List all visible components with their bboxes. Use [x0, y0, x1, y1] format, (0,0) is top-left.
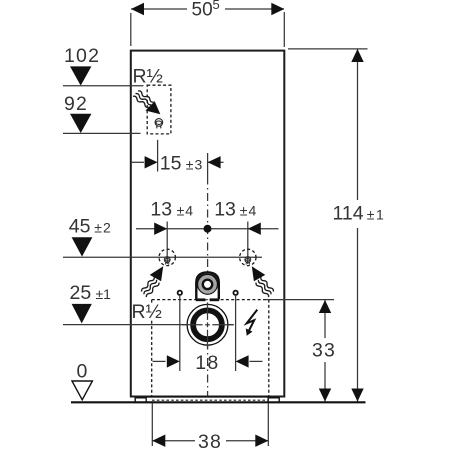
service opening dashed box: top edge	[152, 299, 269, 301]
lightning bolt (power connection)	[247, 310, 258, 332]
svg-text:±1: ±1	[367, 207, 385, 223]
dimension 38 extension line left	[151, 404, 153, 447]
drain pipe wall (black annulus)	[193, 310, 222, 339]
svg-text:0: 0	[77, 361, 88, 383]
level line 102	[63, 85, 144, 87]
screw point left	[178, 291, 182, 295]
extension line 33 (top)	[266, 299, 334, 301]
tap icon in top supply box	[155, 119, 163, 129]
flush bend flange bar	[196, 298, 206, 301]
wavy flow arrow top: squiggles	[132, 89, 154, 109]
plinth left foot	[135, 398, 146, 403]
flush bend seal ring (grey)	[198, 275, 218, 295]
level marker 25 triangle	[72, 304, 92, 324]
dimension 50-5 arrow right	[271, 3, 284, 15]
flush bend fitting body	[196, 272, 219, 299]
wavy flow arrow right hole: head	[252, 266, 265, 281]
wavy flow arrow top: head	[146, 101, 161, 114]
toilet centre line (vertical chain line)	[207, 153, 209, 402]
cabinet outline (monolith panel)	[131, 51, 284, 397]
drain pipe outer circle	[187, 304, 228, 345]
dimension 13/13 line	[136, 228, 279, 230]
extension line right hole	[247, 222, 249, 265]
dimension 15 arrow right (pointing left)	[208, 156, 221, 168]
dimension 50-5 line	[131, 8, 187, 10]
wavy flow arrow right hole: squiggles	[254, 276, 275, 298]
screw point right	[233, 291, 237, 295]
floor line	[71, 401, 366, 403]
svg-text:±4: ±4	[240, 203, 257, 219]
svg-text:±2: ±2	[94, 219, 111, 235]
svg-text:25: 25	[70, 282, 92, 304]
svg-text:45: 45	[69, 215, 91, 237]
extension line left hole	[166, 222, 168, 265]
plinth right foot	[268, 398, 279, 403]
dimension 13 arrow right (outside, pointing left)	[248, 223, 261, 235]
svg-text:R½: R½	[133, 66, 163, 88]
svg-text:15: 15	[160, 153, 182, 175]
label R1/2 bottom backing	[150, 305, 164, 320]
extension line from right screw	[235, 296, 237, 371]
svg-text:±1: ±1	[96, 286, 112, 302]
flush bend inner ring	[203, 280, 212, 289]
centre reference dot	[204, 225, 212, 233]
water supply zone dashed box top	[147, 85, 171, 134]
dimension 33 arrow up	[319, 300, 331, 313]
dimension 18 arrow left (outside, pointing right)	[167, 355, 180, 367]
service opening dashed box: left edge	[151, 300, 153, 399]
svg-text:5: 5	[213, 0, 220, 12]
dimension 33 arrow down	[319, 389, 331, 402]
service opening dashed box: right edge	[268, 300, 270, 399]
svg-text:±4: ±4	[177, 203, 194, 219]
level marker 45 triangle	[72, 237, 93, 256]
flush bend dark top fill	[197, 274, 217, 287]
dimension 50-5 extension line left	[130, 13, 132, 46]
drain pipe horizontal centre mark	[182, 324, 234, 326]
svg-text:13: 13	[150, 199, 172, 221]
dimension 18 line	[153, 360, 166, 362]
dimension 38 extension line right	[267, 404, 269, 447]
level marker 0 open triangle	[72, 381, 92, 400]
dimension 114 line	[357, 49, 359, 200]
wavy flow arrow left hole: squiggles	[140, 276, 161, 298]
svg-text:13: 13	[214, 199, 236, 221]
dimension 114 arrow up	[351, 49, 363, 62]
dimension 38 arrow right	[255, 435, 268, 447]
svg-text:18: 18	[195, 352, 219, 374]
tap icon in left hole	[164, 257, 170, 265]
svg-text:33: 33	[312, 340, 336, 362]
dimension 50-5 arrow left	[131, 3, 144, 15]
fixing hole right (dashed circle)	[240, 249, 256, 265]
svg-text:38: 38	[198, 431, 222, 450]
dimension 15 arrow left (pointing right)	[145, 156, 158, 168]
plinth panel	[146, 397, 268, 402]
extension line 114 (top)	[288, 48, 368, 50]
svg-text:±3: ±3	[186, 157, 203, 173]
plinth dashed recess line	[152, 399, 268, 401]
wavy flow arrow left hole: head	[150, 266, 164, 281]
svg-text:92: 92	[64, 93, 88, 115]
level line 45	[63, 256, 262, 258]
dimension 13 arrow left (outside, pointing right)	[154, 223, 167, 235]
level marker 92 triangle	[70, 114, 91, 133]
fixing hole left (dashed circle)	[159, 249, 175, 265]
tap icon in right hole	[245, 257, 251, 265]
drain pipe vertical centre mark	[207, 303, 209, 349]
svg-text:50: 50	[192, 0, 213, 21]
svg-text:114: 114	[333, 203, 364, 225]
dimension 38 line	[152, 440, 195, 442]
dimension 50-5 extension line right	[283, 12, 285, 47]
dimension 33 line	[324, 300, 326, 338]
dimension 15 pm3: extension line from tap	[157, 140, 159, 172]
svg-text:R½: R½	[132, 301, 162, 323]
dimension 38 arrow left	[152, 435, 165, 447]
dimension 15 pm3 line	[132, 161, 145, 163]
dimension 114 arrow down	[351, 389, 363, 402]
level marker 102 triangle	[70, 66, 91, 85]
svg-text:102: 102	[64, 45, 100, 67]
extension line from left screw	[179, 296, 181, 371]
level line 25 / drain axis	[63, 324, 234, 326]
level line 92	[63, 132, 141, 134]
dimension 18 arrow right (outside, pointing left)	[236, 355, 249, 367]
